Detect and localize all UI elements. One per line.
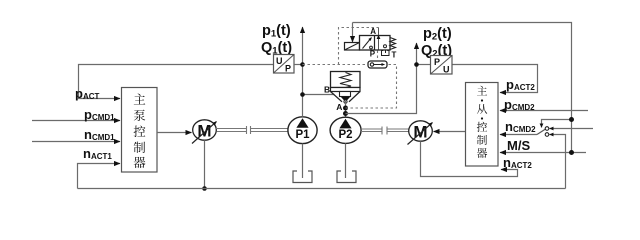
wire: P2 suction to tank xyxy=(345,143,347,178)
svg-text:p2(t): p2(t) xyxy=(423,26,452,43)
pilot dashed branch up to solenoid wire xyxy=(339,28,379,65)
junction dot M/S / top wire xyxy=(569,150,574,155)
solenoid actuator xyxy=(345,43,360,51)
svg-text:P: P xyxy=(285,64,291,74)
wire: top control wire to right side xyxy=(353,23,572,153)
wire: upper contact external input xyxy=(550,128,594,130)
wire: A branch to P2 riser and up to flow arrow xyxy=(346,43,417,114)
pressure sensor U2 (P/U transducer) xyxy=(431,56,453,75)
cartridge valve (pilot operated, spring) body xyxy=(331,72,361,104)
shuttle valve xyxy=(368,61,387,68)
switch lower contact xyxy=(545,133,549,137)
tank at T port xyxy=(382,50,390,56)
cartridge poppet xyxy=(331,92,361,102)
wire: bottom feedback line xyxy=(78,188,566,190)
junction dot A lower xyxy=(343,111,348,116)
tank under P2 xyxy=(337,171,356,183)
right position: A to T path, P blocked xyxy=(378,28,380,50)
pilot dashed line from A to shuttle right port xyxy=(346,65,397,109)
wire: controller2 output to motor M2 xyxy=(434,131,466,133)
svg-text:P: P xyxy=(370,50,376,59)
wire: lower contact to bottom feedback line xyxy=(550,135,566,189)
wire: sensor tap to riser xyxy=(294,64,303,66)
svg-text:U: U xyxy=(276,56,283,66)
svg-text:P: P xyxy=(434,57,440,67)
controller box U1: main pump controller xyxy=(122,88,158,173)
wire: nACT1 feedback from bottom line xyxy=(78,164,121,189)
junction dot riser2/sensor2 xyxy=(414,62,419,67)
controller box U2: master-slave controller xyxy=(466,83,499,167)
svg-text:A: A xyxy=(370,27,376,36)
pump P1 xyxy=(288,117,317,144)
wire: sensor2 tap xyxy=(417,64,432,66)
pilot dashed line from riser to shuttle valve left port xyxy=(303,64,369,66)
motor M1 (variable) xyxy=(192,120,217,144)
wire: controller output to motor M1 xyxy=(157,132,192,134)
valve body xyxy=(360,36,391,51)
junction dot A upper xyxy=(343,106,348,111)
svg-text:P2: P2 xyxy=(338,129,352,141)
wire: pCMD1 input xyxy=(32,120,120,122)
svg-text:M/S: M/S xyxy=(507,138,530,153)
svg-text:U: U xyxy=(443,65,450,75)
wire: pCMD2 input xyxy=(500,110,588,112)
shaft coupling M1-P1 xyxy=(216,126,289,134)
wire: M2 shaft tap to nACT2 xyxy=(421,141,518,176)
wire: pilot drop onto solenoid xyxy=(352,23,354,43)
solenoid pilot valve 3/2 xyxy=(345,27,397,60)
wire: cartridge A port to pump P2 xyxy=(345,101,347,118)
cartridge seat band xyxy=(331,88,361,92)
wire: B-port line from riser to cartridge valve xyxy=(303,94,335,96)
left position: P to A arrow xyxy=(363,38,372,49)
pilot dashed from valve P port down to shuttle xyxy=(377,51,379,62)
svg-text:A: A xyxy=(336,102,342,112)
svg-text:p1(t): p1(t) xyxy=(262,23,291,40)
wire: M1 shaft speed tap to bottom line xyxy=(204,140,206,188)
wire: pACT feedback from sensor U1 to main pump controller xyxy=(79,65,275,99)
return spring xyxy=(390,38,396,50)
pressure sensor U1 (U/P transducer) xyxy=(274,55,295,74)
junction dot top wire / switch feed xyxy=(569,117,574,122)
wire: sensor2 output to pACT2 input xyxy=(453,65,538,93)
pump P2 xyxy=(330,117,361,143)
shaft coupling P2-M2 xyxy=(361,127,409,135)
tank under P1 xyxy=(293,171,312,183)
wire: nCMD2 into controller xyxy=(500,134,537,136)
junction dot riser/B xyxy=(300,92,305,97)
wire: M/S input xyxy=(500,152,586,154)
switch blade xyxy=(537,129,545,134)
motor M2 (variable) xyxy=(408,121,433,145)
wire: P1 discharge riser with flow arrow xyxy=(302,27,304,117)
wire: switch feed from top wire xyxy=(542,120,572,128)
svg-text:B: B xyxy=(324,85,330,95)
switch upper contact xyxy=(545,127,549,131)
svg-text:P1: P1 xyxy=(295,129,310,141)
svg-text:M: M xyxy=(413,123,427,142)
svg-text:M: M xyxy=(197,122,211,141)
junction dot riser/sensor xyxy=(300,62,305,67)
svg-text:T: T xyxy=(392,51,397,60)
junction dot M1 tap xyxy=(202,186,207,191)
wire: nCMD1 input xyxy=(32,141,120,143)
wire: P1 suction to tank xyxy=(302,144,304,178)
